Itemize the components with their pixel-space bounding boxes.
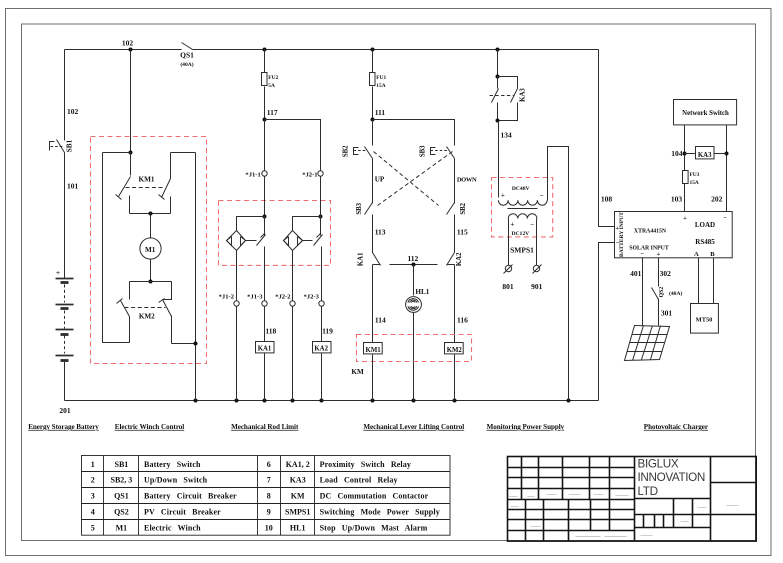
svg-text:M1: M1 <box>116 524 128 533</box>
alarm HL1 stop up/down mast alarm <box>406 297 422 313</box>
svg-text:5: 5 <box>91 524 95 533</box>
svg-text:KM: KM <box>351 368 364 376</box>
svg-text:4: 4 <box>91 508 95 517</box>
svg-text:301: 301 <box>661 308 673 317</box>
svg-text:SOLAR INPUT: SOLAR INPUT <box>629 245 669 251</box>
wire: rail riser to battery input minus <box>599 243 615 401</box>
svg-text:Proximity Switch Relay: Proximity Switch Relay <box>320 460 411 469</box>
svg-text:Up/Down Switch: Up/Down Switch <box>144 476 208 485</box>
svg-text:+: + <box>683 215 687 222</box>
svg-text:Mechanical Lever Lifting Contr: Mechanical Lever Lifting Control <box>363 423 464 431</box>
svg-text:XTRA4415N: XTRA4415N <box>634 228 667 234</box>
svg-text:−: − <box>540 191 544 199</box>
mechanical link cross SB2 to lower right <box>374 152 439 206</box>
svg-text:DC12V: DC12V <box>511 231 529 237</box>
svg-text:5A: 5A <box>268 83 275 89</box>
relay coil KA2 <box>313 342 332 353</box>
svg-text:(40A): (40A) <box>180 61 193 68</box>
svg-text:KA1: KA1 <box>358 252 365 266</box>
svg-text:7: 7 <box>267 476 271 485</box>
svg-text:SB3: SB3 <box>356 202 363 214</box>
svg-text:Battery Switch: Battery Switch <box>144 460 201 469</box>
wire: J1 sensor stub <box>237 217 265 231</box>
transformer SMPS1 secondary DC12V <box>508 214 537 219</box>
wire: J1 column into limit box <box>264 177 266 217</box>
terminal *J2-3 <box>319 301 324 306</box>
svg-text:LTD: LTD <box>638 485 658 498</box>
wire: bus drop to battery input 108 <box>599 50 615 227</box>
svg-text:118: 118 <box>265 327 276 336</box>
svg-text:Monitoring Power Supply: Monitoring Power Supply <box>487 423 565 431</box>
red dashed enclosure: electric winch control <box>91 137 207 364</box>
wire: 111 top tie to down branch <box>373 120 455 146</box>
svg-text:202: 202 <box>711 195 723 204</box>
wire: alarm to rail <box>413 313 415 401</box>
svg-text:*J1-3: *J1-3 <box>247 293 263 300</box>
svg-text:KM: KM <box>291 492 305 501</box>
svg-text:103: 103 <box>671 195 683 204</box>
switch SB1 battery switch <box>50 142 55 151</box>
svg-text:−: − <box>723 214 727 221</box>
svg-text:DC48V: DC48V <box>512 186 530 192</box>
wire: KM1 output bar to motor <box>130 213 171 215</box>
proximity sensor J1 (diamond) <box>227 231 246 251</box>
svg-text:QS2: QS2 <box>659 287 665 298</box>
wire: left branch from bus to SB1 <box>64 50 66 141</box>
svg-text:Energy Storage Battery: Energy Storage Battery <box>28 423 99 431</box>
wire: 112 drop to alarm <box>413 265 415 296</box>
svg-text:401: 401 <box>630 269 642 278</box>
svg-text:DOWN: DOWN <box>457 176 477 183</box>
svg-text:3: 3 <box>91 492 95 501</box>
svg-text:117: 117 <box>267 108 278 117</box>
mechanical link KM2 <box>125 307 166 309</box>
proximity switch contact J2 <box>303 240 313 242</box>
wire: winch right outer branch <box>195 153 197 401</box>
contactor contact KM2 pole 1 <box>129 282 131 300</box>
relay coil KA1 <box>256 342 275 353</box>
svg-text:*J2-2: *J2-2 <box>275 293 291 300</box>
wire: solar input plus 302 <box>658 258 660 287</box>
svg-text:+: + <box>511 220 515 228</box>
wire: network switch left lead <box>684 125 686 171</box>
parts table <box>82 456 451 536</box>
svg-text:115: 115 <box>457 228 468 237</box>
wire: primary minus return over to rail <box>548 147 569 401</box>
svg-text:FU3: FU3 <box>690 172 700 178</box>
wire: secondary leads to terminals 801 901 <box>508 219 510 266</box>
svg-text:8: 8 <box>267 492 271 501</box>
svg-text:−: − <box>640 251 644 258</box>
faint placeholder marks <box>510 495 739 537</box>
rail junction nodes <box>194 399 198 403</box>
break contact SB2 on DOWN branch <box>447 203 455 215</box>
svg-text:KA2: KA2 <box>456 252 463 266</box>
svg-text:134: 134 <box>501 131 513 140</box>
terminal *J2-2 <box>290 301 295 306</box>
red dashed enclosure: mechanical rod limit <box>219 201 331 266</box>
svg-text:MT50: MT50 <box>696 316 713 323</box>
svg-text:RS485: RS485 <box>695 238 715 246</box>
transformer core <box>508 208 538 210</box>
svg-text:KA1, 2: KA1, 2 <box>286 460 310 469</box>
svg-text:111: 111 <box>375 108 386 117</box>
mechanical link KA3 <box>490 95 515 97</box>
break contact SB3 on UP branch <box>365 203 373 215</box>
svg-text:BATTERY INPUT: BATTERY INPUT <box>619 212 625 257</box>
svg-text:INNOVATION: INNOVATION <box>638 471 706 484</box>
svg-text:Battery Circuit Breaker: Battery Circuit Breaker <box>144 492 237 501</box>
svg-text:*J2-3: *J2-3 <box>304 293 320 300</box>
wire: node 101 SB1 to battery <box>64 153 66 279</box>
svg-text:2: 2 <box>91 476 95 485</box>
wire: node 301 to panel <box>658 299 660 326</box>
wire: 117 branch to J2 column <box>265 120 321 171</box>
svg-text:DC Commutation Contactor: DC Commutation Contactor <box>320 492 429 501</box>
wire: bottom negative rail node 201 <box>65 400 599 402</box>
svg-text:BIGLUX: BIGLUX <box>638 457 679 470</box>
svg-text:KM2: KM2 <box>447 347 463 354</box>
terminal *J2-1 <box>318 171 323 176</box>
wire: RS485 B lead <box>713 258 715 304</box>
wire: motor to KM2 bar <box>150 260 152 282</box>
svg-text:QS2: QS2 <box>114 508 129 517</box>
svg-text:KM1: KM1 <box>366 347 382 354</box>
breaker QS2 (40A) <box>652 288 659 300</box>
svg-text:801: 801 <box>502 282 514 291</box>
svg-text:SB1: SB1 <box>115 460 129 469</box>
svg-text:*J1-1: *J1-1 <box>245 171 260 178</box>
wire: network switch right lead 202 <box>726 125 728 212</box>
svg-text:119: 119 <box>322 327 333 336</box>
display unit MT50 <box>691 304 719 334</box>
charge controller XTRA4415N <box>615 212 733 258</box>
svg-text:HL1: HL1 <box>415 288 429 296</box>
wire: J1 sensor output <box>236 251 238 301</box>
wire: battery minus to bottom rail <box>64 362 66 401</box>
svg-text:QS1: QS1 <box>114 492 129 501</box>
wire: 117 down J1 column <box>264 120 266 171</box>
wire: J2 switch leg <box>320 217 322 236</box>
svg-text:113: 113 <box>375 228 386 237</box>
svg-text:A: A <box>694 251 699 258</box>
company name BIGLUX INNOVATION LTD <box>638 457 706 498</box>
svg-text:116: 116 <box>457 315 468 324</box>
svg-text:+: + <box>501 191 505 199</box>
svg-text:6: 6 <box>267 460 271 469</box>
svg-text:Switching Mode Power Supply: Switching Mode Power Supply <box>320 508 440 517</box>
wire: feed from node 102 into winch bridge <box>130 50 132 153</box>
svg-text:PV Circuit Breaker: PV Circuit Breaker <box>144 508 221 517</box>
fuse FU1 15A <box>372 50 374 73</box>
node 117 <box>263 118 267 122</box>
svg-text:102: 102 <box>67 107 79 116</box>
svg-text:10: 10 <box>265 524 273 533</box>
svg-text:9: 9 <box>267 508 271 517</box>
contactor contact KM1 pole 1 <box>130 153 132 176</box>
wire: node 119 <box>321 307 323 342</box>
wire: main positive bus node 102 <box>65 49 182 51</box>
svg-text:UP: UP <box>375 175 385 183</box>
wire: J1-2 to rail <box>236 307 238 401</box>
node junction on bus at FU1 <box>371 48 375 52</box>
svg-text:104: 104 <box>671 149 683 158</box>
svg-text:112: 112 <box>407 254 418 263</box>
svg-text:302: 302 <box>660 269 672 278</box>
relay contact box KA3 (load control) <box>685 153 696 155</box>
relay contact KA3 pole 1 <box>497 77 499 89</box>
relay contact KA3 pole 2 <box>498 77 518 89</box>
mechanical link KM1 <box>126 187 165 189</box>
svg-text:(40A): (40A) <box>669 290 682 297</box>
terminal *J1-3 <box>262 301 267 306</box>
wire: KM2 pole2 to right branch <box>172 343 196 345</box>
wire: 111 down UP branch <box>372 120 374 146</box>
svg-text:FU2: FU2 <box>268 75 278 81</box>
wire: J2 sensor stub <box>319 215 323 219</box>
svg-text:KM1: KM1 <box>139 176 155 184</box>
wire: node 134 to SMPS primary <box>498 121 500 198</box>
svg-text:−: − <box>530 220 534 228</box>
svg-text:SB2, 3: SB2, 3 <box>111 476 133 485</box>
wire: winch left outer branch <box>103 153 130 343</box>
svg-text:114: 114 <box>375 315 386 324</box>
svg-text:KM2: KM2 <box>139 312 155 320</box>
red dashed enclosure: monitoring power supply <box>492 178 553 237</box>
node 102 <box>129 48 133 52</box>
node 111 <box>371 118 375 122</box>
title block grid <box>508 457 757 542</box>
svg-text:HL1: HL1 <box>290 524 306 533</box>
svg-text:M1: M1 <box>145 246 156 254</box>
mechanical link cross SB3 to lower left <box>378 152 453 206</box>
contactor contact KM1 pole 2 <box>170 153 172 179</box>
svg-text:1: 1 <box>91 460 95 469</box>
svg-text:SMPS1: SMPS1 <box>285 508 310 517</box>
svg-text:Mechanical Rod Limit: Mechanical Rod Limit <box>231 423 299 431</box>
contactor coil KM1 <box>364 343 383 354</box>
svg-text:15A: 15A <box>376 83 385 89</box>
box: network switch <box>674 100 737 125</box>
node junction on bus at KA3 <box>496 48 500 52</box>
svg-text:KA3: KA3 <box>698 152 712 159</box>
fuse FU2 5A <box>264 50 266 73</box>
wire: winch bridge top-left horizontal <box>103 152 131 154</box>
svg-text:LOAD: LOAD <box>695 221 715 229</box>
svg-text:Network Switch: Network Switch <box>682 110 729 117</box>
svg-text:201: 201 <box>59 406 71 415</box>
wire: bus drop to KA3 contact <box>497 50 499 77</box>
svg-text:15A: 15A <box>690 180 699 186</box>
svg-text:Electric Winch: Electric Winch <box>144 524 201 533</box>
svg-text:KA1: KA1 <box>258 345 272 352</box>
svg-text:B: B <box>710 251 715 258</box>
proximity sensor J2 (diamond) <box>284 231 303 251</box>
terminal *J1-2 <box>234 301 239 306</box>
svg-text:SB3: SB3 <box>420 145 427 157</box>
svg-text:102: 102 <box>122 39 134 48</box>
svg-text:Load Control Relay: Load Control Relay <box>320 476 398 485</box>
svg-text:108: 108 <box>601 195 613 204</box>
svg-text:KA3: KA3 <box>290 476 306 485</box>
svg-text:+: + <box>56 268 60 277</box>
svg-text:Photovoltaic Charger: Photovoltaic Charger <box>644 423 708 431</box>
motor M1 electric winch <box>140 238 161 259</box>
node junction on bus at FU2 <box>263 48 267 52</box>
svg-text:Stop Up/Down Mast Alarm: Stop Up/Down Mast Alarm <box>320 524 428 533</box>
svg-text:SB2: SB2 <box>343 145 350 157</box>
wire: winch bridge top-right horizontal <box>171 152 196 154</box>
wire: RS485 A lead <box>698 258 700 304</box>
wire: node 112 tie bar <box>390 264 438 266</box>
svg-text:SB1: SB1 <box>65 139 73 152</box>
wire: J1 switch leg <box>264 217 266 236</box>
svg-text:101: 101 <box>67 182 79 191</box>
red dashed enclosure: KM coils <box>357 335 472 362</box>
wire: J2 sensor output <box>292 251 294 301</box>
svg-text:SMPS1: SMPS1 <box>510 245 534 254</box>
svg-text:+: + <box>615 225 619 232</box>
svg-text:KA3: KA3 <box>519 88 526 102</box>
wire: node 118 <box>264 307 266 342</box>
svg-text:901: 901 <box>531 282 543 291</box>
svg-text:QS1: QS1 <box>180 51 194 60</box>
svg-text:−: − <box>616 240 620 247</box>
fuse FU3 15A <box>683 171 689 184</box>
terminal 801 <box>505 265 511 271</box>
terminal 901 <box>533 265 539 271</box>
wire: solar input minus 401 <box>642 258 644 326</box>
svg-text:*J1-2: *J1-2 <box>219 293 235 300</box>
svg-text:KA2: KA2 <box>314 345 328 352</box>
svg-text:Electric Winch Control: Electric Winch Control <box>115 423 185 431</box>
terminal *J1-1 <box>262 171 267 176</box>
svg-text:+: + <box>656 251 660 258</box>
proximity switch contact J1 <box>246 240 257 242</box>
svg-text:*J2-1: *J2-1 <box>302 171 317 178</box>
contactor coil KM2 <box>445 343 464 354</box>
svg-text:FU1: FU1 <box>376 75 386 81</box>
svg-text:SB2: SB2 <box>460 202 467 214</box>
contactor contact KM2 pole 2 <box>163 282 172 300</box>
circuit breaker QS1 <box>182 43 193 50</box>
solar panel PV array <box>625 326 670 361</box>
